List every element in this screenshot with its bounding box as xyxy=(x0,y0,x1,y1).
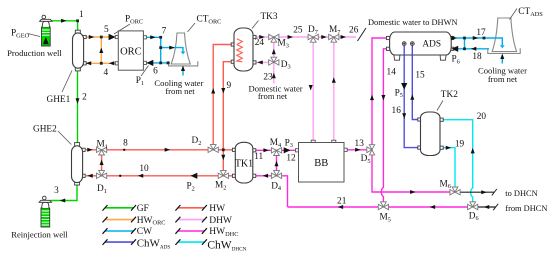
svg-text:P6: P6 xyxy=(452,55,460,66)
junction CW basin xyxy=(167,62,170,65)
adsorption chiller ADS xyxy=(386,32,453,60)
svg-text:P3: P3 xyxy=(285,138,293,149)
leader P_GEO xyxy=(28,34,41,37)
junction dot wire 10 xyxy=(119,175,121,177)
svg-text:M4: M4 xyxy=(270,138,282,149)
cooling tower CT_ORC xyxy=(169,33,198,66)
svg-text:HWDHC: HWDHC xyxy=(209,227,238,238)
box BB backup boiler xyxy=(296,140,348,182)
valve M3 xyxy=(269,34,279,42)
svg-text:from net: from net xyxy=(258,91,288,101)
svg-text:D4: D4 xyxy=(271,181,282,192)
sprinkler CT_ORC xyxy=(181,52,186,55)
svg-text:M7: M7 xyxy=(329,25,340,36)
pump P2 xyxy=(191,173,198,179)
valve D5 xyxy=(367,145,375,155)
wire TK3 coil return to M2 xyxy=(223,62,234,176)
svg-text:ADS: ADS xyxy=(422,39,441,49)
wire M3 D3 domestic riser xyxy=(273,37,275,84)
tank TK2 xyxy=(418,112,443,156)
svg-text:Domestic water to DHWN: Domestic water to DHWN xyxy=(368,18,458,27)
svg-text:ORC: ORC xyxy=(120,47,142,58)
sprinkler CT_ADS xyxy=(500,45,505,48)
junction wire 17 xyxy=(483,37,486,40)
valve D7 xyxy=(308,34,318,42)
junction wire 9 crossing xyxy=(222,148,225,151)
junction CW spray tee xyxy=(159,46,162,49)
wire 18 CT_ADS basin to ADS xyxy=(451,48,490,50)
pump P6 xyxy=(451,46,458,52)
svg-text:ChWDHCN: ChWDHCN xyxy=(207,240,246,253)
flow arrow from DHCN xyxy=(484,205,490,209)
svg-text:GF: GF xyxy=(137,204,149,214)
wire ADS nozzle drop 15 xyxy=(411,46,413,56)
flow arrow wire 21 xyxy=(338,205,344,209)
svg-text:16: 16 xyxy=(392,106,402,116)
flow arrow wire 5 xyxy=(89,35,95,39)
wire D6 to M5 xyxy=(388,206,468,208)
wire 14 ADS outlet to M5 with hop xyxy=(381,49,389,202)
svg-text:PORC: PORC xyxy=(125,15,143,26)
wire 16 ADS via P5 to TK2 lower xyxy=(404,44,420,148)
valve D2 xyxy=(208,145,218,153)
wire HW_ORC bypass xyxy=(100,37,102,63)
junction CW ADS top xyxy=(463,37,466,40)
legend swatch HWDHC xyxy=(178,230,205,232)
wire 19 TK2 bottom to M6 xyxy=(440,148,455,188)
wire 7 ORC to CT_ORC xyxy=(143,37,160,63)
svg-text:TK2: TK2 xyxy=(441,90,458,100)
flow arrow wire 3 xyxy=(60,199,66,203)
valve M1 xyxy=(97,147,107,155)
wire 8 GHE2 to TK1 hot xyxy=(86,149,236,151)
svg-text:3: 3 xyxy=(54,186,59,196)
flow arrow TK3 return to M2 xyxy=(221,155,225,161)
wire 9 D2 to TK3 coil supply xyxy=(213,45,234,150)
wire 4 ORC to GHE1 return xyxy=(84,62,118,64)
leader TK2 xyxy=(437,101,443,111)
svg-text:24: 24 xyxy=(255,38,265,48)
svg-text:CTORC: CTORC xyxy=(197,15,222,26)
svg-text:1: 1 xyxy=(79,10,84,20)
svg-text:to DHCN: to DHCN xyxy=(505,189,537,198)
wire make-up water CT_ADS xyxy=(501,58,503,64)
svg-text:14: 14 xyxy=(387,68,397,78)
wire 17 ADS to CT_ADS xyxy=(451,38,503,45)
legend swatch DHW xyxy=(178,219,205,221)
svg-text:Reinjection well: Reinjection well xyxy=(11,229,68,239)
leader CT_ADS xyxy=(510,9,518,20)
wire D4 to TK1 return and down xyxy=(252,176,287,207)
heat exchanger GHE1 xyxy=(73,30,87,71)
svg-text:ChWADS: ChWADS xyxy=(137,238,171,251)
svg-text:HW: HW xyxy=(209,204,225,214)
flow arrow wire 10 into GHE2 xyxy=(87,174,93,178)
flow arrow D1 to M1 xyxy=(100,159,104,165)
svg-text:18: 18 xyxy=(472,52,482,62)
svg-text:D2: D2 xyxy=(192,136,202,147)
legend swatch CW xyxy=(105,230,134,232)
production well xyxy=(40,15,52,46)
svg-text:CTADS: CTADS xyxy=(518,7,543,18)
nozzle circles ADS xyxy=(402,42,414,46)
svg-text:12: 12 xyxy=(286,153,296,163)
heat exchanger GHE2 xyxy=(72,143,86,185)
flow arrow to M6 xyxy=(410,190,416,194)
flow arrow wire 19 xyxy=(446,146,452,150)
wire 11 12 TK1 to BB xyxy=(252,149,298,151)
leader P1 xyxy=(141,66,149,77)
svg-text:P2: P2 xyxy=(187,182,195,193)
connector slash from DHCN xyxy=(493,204,498,210)
flow arrow wire 9 return xyxy=(221,88,225,94)
flow arrow CW spray branch xyxy=(169,46,175,50)
flow arrow HW_ORC bypass xyxy=(99,47,103,53)
svg-text:DHW: DHW xyxy=(209,216,232,226)
flow arrow wire 17 a xyxy=(451,36,457,40)
valve M4 xyxy=(271,148,281,156)
legend swatch GF xyxy=(105,207,134,209)
svg-text:GHE1: GHE1 xyxy=(47,95,71,105)
pump P1 xyxy=(147,60,154,66)
flow arrow to DHCN xyxy=(481,190,487,194)
pump P5 xyxy=(401,83,407,90)
flow arrow wire 18 xyxy=(471,47,477,51)
wire 21 M5 to D4 xyxy=(288,206,380,208)
box ORC xyxy=(115,31,146,70)
leader GHE1 xyxy=(62,71,72,93)
svg-text:CW: CW xyxy=(137,227,152,237)
tank TK1 xyxy=(232,142,255,183)
svg-text:5: 5 xyxy=(104,25,109,35)
svg-text:15: 15 xyxy=(415,71,425,81)
flow arrow wire 25 b xyxy=(321,35,327,39)
wire D3 to TK3 cold in xyxy=(250,61,274,63)
svg-text:HWORC: HWORC xyxy=(137,216,166,227)
flow arrow D3 to TK3 xyxy=(257,60,263,64)
flow arrow D4 to TK1 xyxy=(263,174,269,178)
wire make-up water CT_ORC xyxy=(182,69,184,76)
valve D4 xyxy=(271,171,281,179)
wire from DHCN xyxy=(478,206,496,208)
flow arrow wire 13 xyxy=(355,148,361,152)
svg-text:TK1: TK1 xyxy=(235,159,253,170)
svg-text:19: 19 xyxy=(455,139,465,149)
legend swatch HWORC xyxy=(105,219,134,221)
flow arrow D5 to ADS xyxy=(370,95,374,101)
connector slash DHWN xyxy=(358,28,367,41)
flow arrow wire 10 mid xyxy=(138,174,144,178)
wire 5 GHE1 to ORC hot xyxy=(84,36,118,38)
valve M2 xyxy=(218,171,228,179)
junction HW_ORC top xyxy=(100,36,103,39)
svg-text:17: 17 xyxy=(476,28,486,38)
flow arrow D6 to M5 xyxy=(430,205,436,209)
valve D6 xyxy=(468,202,478,210)
flow arrow wire 15 xyxy=(410,94,414,100)
leader P_ORC xyxy=(114,24,130,34)
svg-text:7: 7 xyxy=(162,27,167,37)
svg-text:D1: D1 xyxy=(97,184,107,195)
svg-text:D7: D7 xyxy=(308,25,318,36)
svg-text:8: 8 xyxy=(123,138,128,148)
wire 24 25 26 TK3 to DHWN xyxy=(253,36,356,38)
pump P_ORC xyxy=(109,34,116,41)
reinjection well xyxy=(39,196,51,227)
valve M6 xyxy=(450,187,460,195)
flow arrow wire 8 xyxy=(87,148,93,152)
wire 2 GHE1 to GHE2 xyxy=(77,71,79,144)
flow arrow wire 1 xyxy=(61,19,67,23)
junction CW corner 7 xyxy=(159,36,162,39)
tank TK3 xyxy=(231,28,256,71)
wire D7 branch to BB xyxy=(312,37,314,143)
svg-text:P1: P1 xyxy=(136,76,144,87)
wire CW bypass CT_ADS xyxy=(464,38,466,49)
svg-text:M3: M3 xyxy=(278,39,289,50)
coil TK3 xyxy=(237,39,243,62)
leader TK3 xyxy=(252,21,259,29)
svg-text:M6: M6 xyxy=(440,179,451,190)
leader CT_ORC xyxy=(188,23,196,32)
svg-text:PGEO: PGEO xyxy=(11,29,30,40)
wire M4 D4 bypass xyxy=(276,150,278,176)
wire 13 BB to D5 xyxy=(345,149,372,151)
flow arrow D7 branch xyxy=(309,85,313,91)
connector slash to DHCN xyxy=(492,189,497,195)
flow arrow wire 17 b xyxy=(473,36,479,40)
flow arrow D4 to M4 xyxy=(275,161,279,167)
pump P3 xyxy=(284,147,291,153)
svg-text:11: 11 xyxy=(254,152,263,162)
flow arrow wire 20 xyxy=(471,148,475,154)
wire D5 riser to ADS and to M6 xyxy=(372,38,450,192)
wire M7 branch from BB xyxy=(333,37,335,143)
flow arrow wire 2 xyxy=(76,98,80,104)
junction CW ADS bottom xyxy=(463,47,466,50)
valve D1 xyxy=(97,171,107,179)
svg-text:from net: from net xyxy=(488,74,518,84)
flow arrow M7 branch xyxy=(332,77,336,83)
svg-text:20: 20 xyxy=(477,112,487,122)
wire 15 TK2 upper to ADS xyxy=(412,44,420,120)
legend swatch ChWADS xyxy=(105,241,134,243)
flow arrow wire 25 xyxy=(288,35,294,39)
flow arrow wire 4 a xyxy=(86,61,92,65)
svg-text:from net: from net xyxy=(165,86,195,96)
valve M7 xyxy=(329,34,339,42)
leader GHE2 xyxy=(58,131,71,145)
svg-text:BB: BB xyxy=(314,158,328,169)
svg-text:26: 26 xyxy=(349,26,359,36)
wire 20 TK2 top to D6 with hop xyxy=(440,120,472,202)
svg-text:D6: D6 xyxy=(469,211,479,222)
flow arrow wire 24 xyxy=(259,35,265,39)
junction CW bottom tee xyxy=(159,62,162,65)
wire M1 D1 bypass xyxy=(101,150,103,176)
svg-text:6: 6 xyxy=(153,67,158,77)
wire 10 TK1 M2 P2 D1 return xyxy=(86,175,236,177)
svg-text:M1: M1 xyxy=(97,140,108,151)
svg-text:13: 13 xyxy=(355,139,365,149)
wire to DHCN xyxy=(460,191,494,193)
cooling tower CT_ADS xyxy=(488,18,520,54)
flow arrow wire 23 xyxy=(272,73,276,79)
flow arrow wire 4 b xyxy=(109,61,115,65)
flow arrow wire 16 xyxy=(402,113,406,119)
svg-text:4: 4 xyxy=(103,68,108,78)
svg-text:GHE2: GHE2 xyxy=(33,125,57,135)
svg-text:21: 21 xyxy=(337,196,347,206)
svg-text:TK3: TK3 xyxy=(261,12,278,22)
legend swatch HW xyxy=(178,207,205,209)
legend swatch ChWDHCN xyxy=(178,241,205,243)
flow arrow make-up CT_ORC xyxy=(181,66,185,72)
flow arrow wire 26 xyxy=(341,35,347,39)
flow arrow D3 to M3 xyxy=(272,49,276,55)
svg-text:10: 10 xyxy=(139,164,149,174)
wire CW spray branch CT_ORC xyxy=(161,48,183,52)
junction wire 1 corner xyxy=(76,19,79,22)
junction dot wire 8 xyxy=(123,149,125,151)
svg-text:D5: D5 xyxy=(361,154,371,165)
svg-text:23: 23 xyxy=(263,73,273,83)
wire ADS nozzle drop 16 xyxy=(403,46,405,56)
svg-text:2: 2 xyxy=(82,93,87,103)
svg-text:25: 25 xyxy=(293,26,303,36)
svg-text:from DHCN: from DHCN xyxy=(505,204,547,213)
flow arrow wire 7 xyxy=(150,35,156,39)
valve D3 xyxy=(269,57,279,65)
flow arrow wire 14 xyxy=(381,95,385,101)
svg-text:M2: M2 xyxy=(215,181,226,192)
svg-text:P5: P5 xyxy=(395,88,403,99)
valve M5 xyxy=(378,202,388,210)
svg-text:M5: M5 xyxy=(380,213,391,224)
wire 6 CT_ORC basin to ORC xyxy=(143,62,170,64)
svg-text:Production well: Production well xyxy=(7,48,62,58)
svg-text:9: 9 xyxy=(226,81,231,91)
wire 3 GHE2 to reinjection well xyxy=(51,185,78,201)
flow arrow wire 9 supply xyxy=(211,88,215,94)
wire 1 geofluid production well to GHE1 xyxy=(48,21,78,31)
flow arrow wire 11 xyxy=(263,148,269,152)
svg-text:D3: D3 xyxy=(281,60,291,71)
flow arrow make-up CT_ADS xyxy=(500,54,504,60)
junction HW_ORC bottom xyxy=(100,62,103,65)
flow arrow wire 8 mid xyxy=(165,148,171,152)
